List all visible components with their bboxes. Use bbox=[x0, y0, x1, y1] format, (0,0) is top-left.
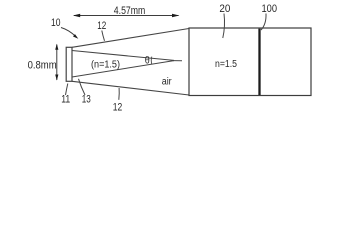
dimension arrowhead left bbox=[73, 14, 80, 18]
wedge core top edge bbox=[72, 51, 174, 61]
svg-text:11: 11 bbox=[61, 93, 70, 105]
vertical dimension arrowhead top bbox=[55, 44, 58, 50]
leader line 20 bbox=[223, 14, 225, 39]
svg-text:4.57mm: 4.57mm bbox=[114, 5, 146, 17]
leader line 100 bbox=[261, 14, 266, 31]
vertical dimension arrowhead bottom bbox=[55, 75, 58, 81]
entrance face 11 (thin end bar of wedge) bbox=[66, 47, 72, 81]
wedge apex tail bbox=[173, 60, 182, 62]
dimension arrowhead right bbox=[172, 14, 179, 18]
arrowhead for 10 bbox=[73, 34, 78, 39]
leader arrow for 10 bbox=[61, 28, 76, 37]
leader line 12 top bbox=[102, 31, 105, 41]
dimension line 4.57mm bbox=[74, 15, 179, 17]
svg-text:12: 12 bbox=[113, 102, 123, 114]
svg-text:100: 100 bbox=[262, 3, 278, 15]
svg-text:θ: θ bbox=[145, 55, 150, 66]
angle arc theta bbox=[150, 57, 153, 65]
wire bottom surface 12 outer diagonal bbox=[72, 81, 189, 95]
svg-text:n=1.5: n=1.5 bbox=[215, 59, 237, 70]
reflective layer 100 thick line bbox=[258, 29, 260, 95]
svg-text:13: 13 bbox=[82, 93, 91, 105]
svg-text:0.8mm: 0.8mm bbox=[28, 60, 57, 72]
svg-text:20: 20 bbox=[219, 3, 230, 15]
leader line 12 bottom bbox=[118, 88, 120, 100]
svg-text:12: 12 bbox=[97, 20, 106, 32]
leader line 11 bbox=[66, 84, 68, 96]
slab block 20 rectangle bbox=[189, 28, 311, 96]
svg-text:(n=1.5): (n=1.5) bbox=[91, 60, 120, 71]
svg-text:air: air bbox=[162, 77, 173, 88]
wedge core bottom edge bbox=[72, 61, 174, 77]
wire top surface 12 outer diagonal bbox=[72, 29, 189, 48]
svg-text:10: 10 bbox=[51, 17, 61, 29]
vertical dimension line 0.8mm bbox=[56, 45, 58, 81]
leader line 13 bbox=[79, 79, 86, 95]
